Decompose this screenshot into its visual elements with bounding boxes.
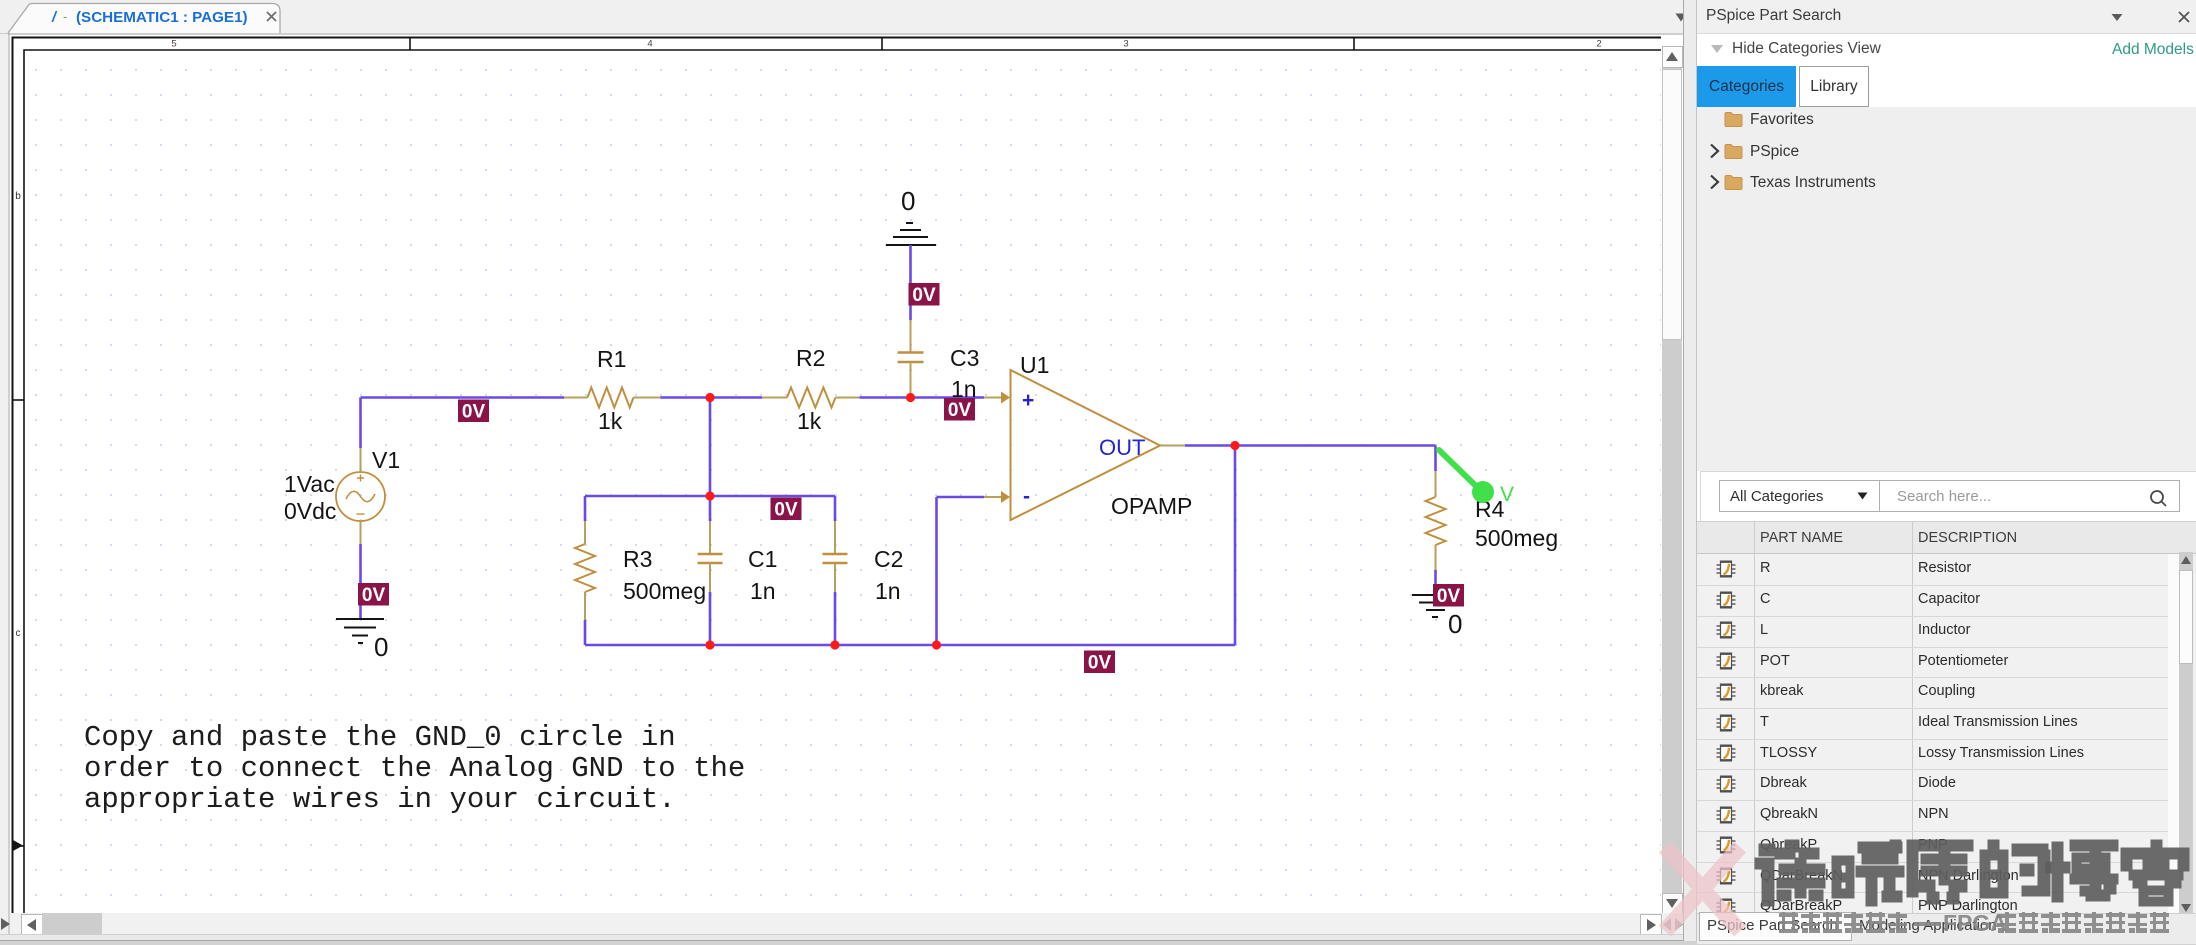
svg-text:0: 0 [1448, 609, 1462, 639]
svg-text:1n: 1n [750, 578, 776, 604]
svg-text:C2: C2 [874, 546, 903, 572]
wire: mid node down [709, 398, 712, 497]
junction node (835,645) [830, 640, 839, 649]
opamp output lead [1160, 445, 1185, 447]
page frame outer border [13, 38, 1662, 914]
svg-text:0V: 0V [912, 285, 936, 306]
parts table header [1697, 521, 2196, 554]
schematic page tab [0, 0, 300, 34]
junction node (1235,445.5) [1230, 441, 1239, 450]
tree: Texas Instruments [1709, 174, 1720, 190]
bias label 0V [1084, 651, 1115, 674]
table row T [1697, 708, 2168, 709]
ruler row ticks [13, 399, 25, 401]
resistor R4 [1434, 446, 1437, 472]
ground 0 at R4 [1412, 595, 1459, 617]
table row QDarBreakP [1697, 892, 2168, 893]
hide categories row [1710, 44, 1724, 54]
svg-text:2: 2 [1596, 39, 1601, 50]
svg-text:order to connect the Analog GN: order to connect the Analog GND to the [84, 752, 745, 785]
wire: V1 top vertical [359, 398, 362, 449]
svg-text:500meg: 500meg [1475, 525, 1558, 551]
watermark X logo [1665, 847, 1740, 931]
svg-text:4: 4 [647, 39, 652, 50]
svg-text:-: - [1023, 485, 1030, 508]
wire: R1 to R2 [661, 396, 763, 399]
svg-text:0: 0 [374, 632, 388, 662]
wire: input net horizontal [361, 396, 565, 399]
source V1 [336, 472, 385, 521]
table row QDarBreakN [1697, 862, 2168, 863]
bias label 0V [771, 498, 802, 521]
watermark small text line (drawn) [1779, 912, 1798, 933]
ruler column ticks [409, 38, 411, 51]
svg-text:0V: 0V [948, 400, 972, 421]
wire: output net [1185, 444, 1436, 447]
svg-text:0V: 0V [462, 402, 486, 423]
table row Dbreak [1697, 769, 2168, 770]
junction node (710,496) [705, 491, 714, 500]
opamp plus pin lead [984, 397, 1002, 399]
svg-text:C1: C1 [748, 546, 777, 572]
categories / library tabs [1697, 66, 1796, 107]
svg-text:0V: 0V [362, 585, 386, 606]
svg-text:1Vac: 1Vac [284, 471, 335, 497]
search row [1700, 471, 2196, 521]
wire: RC cluster top [585, 495, 835, 498]
svg-text:5: 5 [171, 39, 176, 50]
capacitor C2 [834, 496, 837, 521]
ruler cursor arrow [13, 840, 23, 851]
table row C [1697, 585, 2168, 586]
resistor R1 [564, 397, 588, 399]
tab-list dropdown arrow [1674, 12, 1688, 23]
svg-text:V1: V1 [372, 447, 400, 473]
table scrollbar [2168, 554, 2179, 913]
svg-text:+: + [1022, 389, 1034, 412]
junction node (710,397.5) [705, 393, 714, 402]
category tree [1697, 107, 2196, 471]
watermark big text 徐晓康的博客 (drawn) [1755, 840, 1826, 907]
page frame inner border [24, 50, 1661, 913]
opamp U1 [1011, 370, 1161, 520]
svg-text:1k: 1k [598, 408, 623, 434]
right panel background [1697, 0, 2196, 944]
svg-text:0Vdc: 0Vdc [284, 498, 336, 524]
table row kbreak [1697, 677, 2168, 678]
bias label 0V [1433, 584, 1464, 607]
svg-text:appropriate wires in your circ: appropriate wires in your circuit. [84, 783, 676, 816]
svg-text:C3: C3 [950, 345, 979, 371]
junction node (936.5,645) [932, 640, 941, 649]
canvas horizontal scrollbar [10, 913, 1683, 934]
svg-text:500meg: 500meg [623, 578, 706, 604]
watermark overlay [1640, 830, 2196, 944]
svg-text:1n: 1n [875, 578, 901, 604]
svg-text:0V: 0V [1437, 586, 1461, 607]
voltage probe V (green) [1439, 450, 1478, 488]
svg-text:OPAMP: OPAMP [1111, 493, 1192, 519]
table row POT [1697, 647, 2168, 648]
wire: V1 bottom [359, 544, 362, 619]
capacitor C1 [709, 496, 712, 521]
svg-text:OUT: OUT [1099, 435, 1145, 460]
tab bar [0, 0, 1692, 34]
svg-text:c: c [16, 628, 21, 639]
bottom window strip [0, 934, 1696, 945]
ground 0 at top of C3 [886, 223, 936, 245]
panel divider [1683, 0, 1697, 941]
bias label 0V [358, 583, 389, 606]
svg-text:0: 0 [901, 186, 915, 216]
svg-text:0V: 0V [1088, 653, 1112, 674]
bias label 0V [909, 283, 940, 306]
svg-text:R2: R2 [796, 345, 825, 371]
ground 0 at V1 [336, 619, 384, 643]
wire: C3 top [909, 245, 912, 320]
junction node (710,645) [705, 640, 714, 649]
svg-text:(SCHEMATIC1 : PAGE1): (SCHEMATIC1 : PAGE1) [76, 9, 248, 26]
svg-text:1k: 1k [797, 408, 822, 434]
table column dividers [1754, 521, 1755, 913]
table row R [1716, 560, 1736, 578]
wire: minus input [937, 496, 985, 499]
svg-text:-: - [63, 9, 67, 24]
bottom tab bar [1697, 913, 2196, 944]
schematic canvas [8, 33, 1684, 935]
bias label 0V [458, 400, 489, 423]
note text [84, 721, 745, 816]
table row L [1697, 616, 2168, 617]
bottom tab: Modeling Application [1859, 917, 1997, 934]
canvas vertical scrollbar [1662, 46, 1682, 913]
tree: PSpice [1709, 143, 1720, 159]
svg-text:b: b [15, 191, 21, 202]
tree: Favorites [1724, 111, 1743, 128]
opamp minus pin lead [984, 496, 1002, 498]
junction node (910.5,397.5) [906, 393, 915, 402]
svg-text:U1: U1 [1020, 352, 1049, 378]
bias label 0V [944, 398, 975, 421]
table row TLOSSY [1697, 739, 2168, 740]
wire: feedback vertical [1234, 446, 1237, 646]
wire: R2 to plus pin [860, 396, 985, 399]
svg-text:0V: 0V [774, 500, 798, 521]
svg-text:3: 3 [1123, 39, 1128, 50]
table row QbreakN [1697, 800, 2168, 801]
table row QbreakP [1697, 831, 2168, 832]
svg-text:R1: R1 [597, 346, 626, 372]
wire: bottom rail [585, 644, 1235, 647]
resistor R2 [762, 397, 787, 399]
panel header [1697, 0, 2196, 34]
svg-text:V: V [1500, 483, 1514, 506]
resistor R3 [584, 496, 587, 521]
svg-text:R3: R3 [623, 546, 652, 572]
svg-text:Copy and paste the GND_0 circl: Copy and paste the GND_0 circle in [84, 721, 676, 754]
capacitor C3 [910, 320, 912, 352]
bottom tab: PSpice Part Search (active) [1699, 912, 1852, 941]
